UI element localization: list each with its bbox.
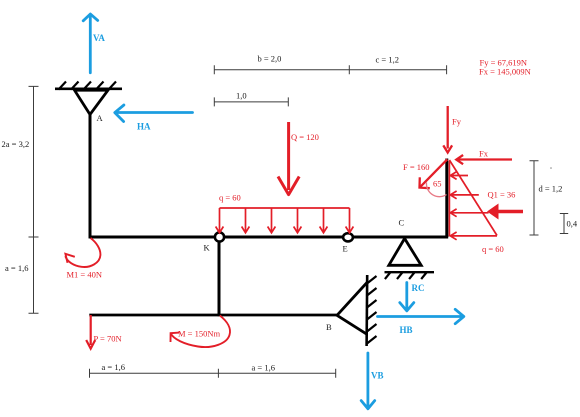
angle arc 65 xyxy=(426,183,446,197)
dimension 0,4 xyxy=(560,214,568,234)
member A vertical xyxy=(89,113,92,238)
svg-text:a = 1,6: a = 1,6 xyxy=(5,263,28,273)
dimension top b and c xyxy=(214,65,446,74)
triangular load hypotenuse xyxy=(449,160,497,236)
svg-text:HB: HB xyxy=(400,325,413,335)
svg-text:q = 60: q = 60 xyxy=(482,244,504,254)
svg-text:c = 1,2: c = 1,2 xyxy=(376,55,399,65)
svg-text:M = 150Nm: M = 150Nm xyxy=(178,329,220,339)
svg-text:C: C xyxy=(399,218,405,228)
resultant Q1=36 xyxy=(493,210,523,214)
svg-text:HA: HA xyxy=(137,122,151,132)
svg-text:A: A xyxy=(97,113,104,123)
svg-text:q = 60: q = 60 xyxy=(219,193,241,203)
svg-text:K: K xyxy=(204,243,211,253)
support C hatch line xyxy=(385,271,435,273)
svg-text:F = 160: F = 160 xyxy=(403,162,430,172)
svg-text:Fy: Fy xyxy=(452,117,462,127)
support B hatch line xyxy=(365,275,368,346)
support B triangle xyxy=(337,283,367,335)
force Q=120 xyxy=(278,122,299,195)
member right vertical xyxy=(445,159,448,238)
svg-text:RC: RC xyxy=(412,283,425,293)
dimension d=1,2 xyxy=(530,161,539,235)
support C triangle xyxy=(389,239,421,266)
arrow RC xyxy=(400,283,414,311)
svg-text:65: 65 xyxy=(433,179,442,189)
hinge K xyxy=(215,232,224,241)
arrow VB xyxy=(361,353,375,409)
support C hatches xyxy=(385,273,427,280)
svg-text:VA: VA xyxy=(93,33,105,43)
svg-text:VB: VB xyxy=(371,371,384,381)
dimension 1,0 xyxy=(214,97,288,106)
arrow HB xyxy=(378,309,464,323)
support B hatches xyxy=(367,276,377,344)
distributed load q=60 top line xyxy=(220,207,350,209)
svg-text:E: E xyxy=(343,244,348,254)
hinge E xyxy=(343,233,353,241)
svg-text:0,4: 0,4 xyxy=(567,219,578,229)
support A hatch line xyxy=(55,88,122,91)
svg-text:M1 = 40N: M1 = 40N xyxy=(67,270,103,280)
moment M1=40N xyxy=(65,238,100,267)
support A hatches xyxy=(59,82,117,90)
triangular load q=60 right edge xyxy=(448,161,450,237)
member K vertical xyxy=(218,237,221,316)
lower beam xyxy=(89,314,338,317)
force Fx xyxy=(456,155,512,164)
stray dot xyxy=(550,167,552,169)
arrow HA xyxy=(115,105,193,122)
triangular load arrows xyxy=(450,172,497,240)
svg-text:b = 2,0: b = 2,0 xyxy=(258,54,282,64)
svg-text:Fx = 145,009N: Fx = 145,009N xyxy=(479,67,531,77)
force Fy xyxy=(443,106,452,153)
support A triangle xyxy=(75,90,109,114)
svg-text:P = 70N: P = 70N xyxy=(94,334,122,344)
svg-text:Fx: Fx xyxy=(479,149,489,159)
force F=160 xyxy=(420,159,448,188)
svg-text:Q1 = 36: Q1 = 36 xyxy=(488,190,516,200)
svg-text:a = 1,6: a = 1,6 xyxy=(102,362,125,372)
svg-text:a = 1,6: a = 1,6 xyxy=(252,363,275,373)
moment M=150Nm xyxy=(171,316,230,348)
svg-text:B: B xyxy=(326,322,332,332)
svg-text:d = 1,2: d = 1,2 xyxy=(539,184,563,194)
arrow VA xyxy=(83,14,98,73)
dimension bottom a,a xyxy=(90,369,336,378)
svg-text:2a = 3,2: 2a = 3,2 xyxy=(2,139,30,149)
main beam xyxy=(89,236,449,239)
svg-text:1,0: 1,0 xyxy=(236,91,247,101)
dimension left vertical 2a/a xyxy=(29,86,39,313)
svg-text:Q = 120: Q = 120 xyxy=(291,132,319,142)
distributed load q=60 arrows xyxy=(216,208,354,233)
force P=70N xyxy=(86,315,95,349)
